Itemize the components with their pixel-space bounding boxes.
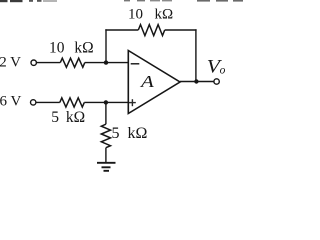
wire R2 to node B	[84, 101, 128, 103]
svg-text:10 kΩ: 10 kΩ	[128, 7, 173, 23]
wire feedback down to node C	[195, 29, 197, 81]
node B non-inverting input junction	[104, 100, 108, 104]
cropped text fragments along top edge	[0, 0, 243, 2]
resistor Rf 10 kOhm feedback	[138, 25, 164, 36]
svg-text:o: o	[220, 65, 226, 77]
resistor R3 5 kOhm shunt to ground	[101, 124, 110, 148]
svg-text:A: A	[140, 72, 155, 91]
wire 2V terminal to R1	[37, 62, 60, 64]
svg-text:6 V: 6 V	[0, 93, 21, 109]
resistor R1 10 kOhm series inverting input	[60, 58, 85, 67]
wire feedback top right segment	[165, 29, 197, 31]
wire feedback top left segment	[105, 29, 138, 31]
node A inverting input junction	[104, 60, 108, 64]
node C output junction	[194, 79, 198, 83]
wire R3 to ground	[105, 148, 107, 163]
wire 6V terminal to R2	[37, 101, 60, 103]
terminal (open circle) 6 V input	[31, 100, 36, 105]
op-amp inverting input marker minus	[131, 63, 140, 64]
terminal (open circle) 2 V input	[31, 60, 36, 65]
svg-text:2 V: 2 V	[0, 54, 21, 70]
svg-text:5 kΩ: 5 kΩ	[112, 125, 148, 142]
op-amp non-inverting input marker plus	[129, 99, 136, 106]
svg-text:5 kΩ: 5 kΩ	[51, 109, 85, 126]
ground	[97, 163, 116, 171]
resistor R2 5 kOhm series non-inverting input	[60, 98, 85, 107]
op-amp U1 triangle	[128, 51, 180, 114]
wire node A up to feedback	[105, 29, 107, 62]
wire op-amp output to node C	[180, 81, 214, 83]
wire node B down to R3	[105, 102, 107, 124]
terminal (open circle) output	[214, 79, 219, 84]
wire R1 to node A	[85, 62, 129, 64]
svg-text:10 kΩ: 10 kΩ	[49, 39, 94, 56]
